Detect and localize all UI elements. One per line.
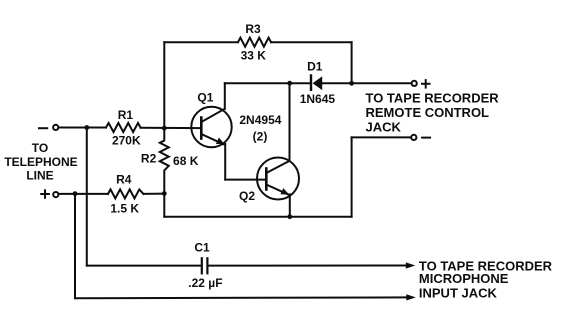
svg-text:INPUT JACK: INPUT JACK bbox=[419, 286, 498, 301]
svg-text:TO: TO bbox=[32, 141, 48, 155]
wire C1 left horizontal bbox=[87, 265, 202, 267]
capacitor C1 right plate bbox=[206, 258, 208, 273]
arrowhead bottom wire bbox=[406, 294, 416, 300]
wire node down to emitter rail bbox=[163, 194, 165, 217]
terminal plus jack bbox=[412, 81, 417, 86]
svg-text:1N645: 1N645 bbox=[300, 92, 336, 106]
Q1 emitter diagonal bbox=[201, 134, 223, 144]
svg-text:R2: R2 bbox=[141, 152, 157, 166]
svg-text:R3: R3 bbox=[245, 22, 261, 36]
Q1 base bar bbox=[200, 118, 203, 139]
wire top horizontal right of R3 bbox=[271, 41, 352, 43]
Q2 emitter diagonal bbox=[266, 185, 288, 195]
svg-text:270K: 270K bbox=[112, 134, 141, 148]
wire Q1 emitter to Q2 base bbox=[225, 179, 266, 181]
Q1 collector diagonal bbox=[201, 109, 225, 122]
Q2 collector vertical up bbox=[289, 83, 291, 161]
arrowhead mic wire bbox=[406, 262, 416, 268]
wire minus jack horizontal bbox=[352, 136, 412, 138]
resistor R3 bbox=[238, 38, 271, 47]
wire right vertical rail up to minus jack wire bbox=[351, 137, 353, 216]
wire collector rail to diode bbox=[225, 82, 310, 84]
Q2 base bar bbox=[265, 169, 268, 190]
terminal plus input bbox=[53, 192, 58, 197]
wire C1 right horizontal to mic arrow bbox=[208, 265, 407, 267]
minus sign input bbox=[39, 127, 47, 129]
terminal minus jack bbox=[411, 135, 416, 140]
wire top-right vertical bbox=[351, 42, 353, 83]
svg-text:JACK: JACK bbox=[366, 120, 402, 135]
wire emitter rail horizontal bbox=[164, 216, 351, 218]
svg-text:Q2: Q2 bbox=[239, 189, 255, 203]
svg-text:MICROPHONE: MICROPHONE bbox=[419, 271, 509, 286]
junction dot on minus wire bbox=[84, 125, 89, 130]
resistor R1 bbox=[106, 123, 141, 132]
Q1 emitter arrowhead bbox=[216, 138, 225, 145]
terminal minus input bbox=[53, 125, 58, 130]
Q2 collector diagonal bbox=[266, 161, 289, 173]
wire diode to plus jack terminal bbox=[322, 82, 411, 84]
svg-text:(2): (2) bbox=[253, 130, 268, 144]
svg-text:2N4954: 2N4954 bbox=[239, 113, 281, 127]
svg-text:C1: C1 bbox=[194, 241, 210, 255]
transistor Q2 bbox=[257, 158, 299, 200]
wire top horizontal left of R3 bbox=[164, 41, 238, 43]
svg-text:TELEPHONE: TELEPHONE bbox=[4, 155, 77, 169]
junction dot R2 bottom node bbox=[162, 191, 167, 196]
svg-text:.22 µF: .22 µF bbox=[188, 276, 222, 290]
wire R4 to node bbox=[144, 193, 165, 195]
svg-text:R4: R4 bbox=[116, 173, 132, 187]
svg-text:33 K: 33 K bbox=[241, 49, 267, 63]
junction dot plus wire bbox=[73, 191, 78, 196]
junction dot Q2 collector on rail bbox=[287, 81, 292, 86]
wire plus line to R4 bbox=[59, 193, 108, 195]
svg-text:Q1: Q1 bbox=[197, 91, 213, 105]
minus sign jack bbox=[422, 137, 430, 139]
junction dot R3 feedback on rail bbox=[349, 81, 354, 86]
svg-text:LINE: LINE bbox=[26, 169, 53, 183]
wire R1 to Q1 base bbox=[141, 127, 202, 129]
resistor R4 bbox=[108, 189, 144, 198]
wire minus line to R1 bbox=[59, 127, 107, 129]
transistor Q1 bbox=[191, 107, 231, 147]
svg-text:68 K: 68 K bbox=[173, 154, 199, 168]
junction dot base node bbox=[162, 126, 167, 131]
diode D1 triangle bbox=[313, 76, 323, 90]
svg-text:D1: D1 bbox=[307, 60, 323, 74]
Q2 emitter vertical down bbox=[289, 194, 291, 216]
svg-text:R1: R1 bbox=[118, 108, 134, 122]
wire bottom rail to input jack arrow bbox=[75, 296, 408, 299]
diode D1 cathode bar bbox=[310, 76, 312, 90]
svg-text:TO TAPE RECORDER: TO TAPE RECORDER bbox=[366, 91, 500, 106]
plus sign jack bbox=[422, 80, 430, 88]
wire minus node down to C1 bbox=[86, 128, 88, 266]
Q2 emitter arrowhead bbox=[281, 188, 290, 195]
svg-text:REMOTE CONTROL: REMOTE CONTROL bbox=[366, 105, 490, 120]
plus sign input bbox=[41, 190, 49, 198]
junction dot Q2 emitter on rail bbox=[287, 214, 292, 219]
svg-text:1.5 K: 1.5 K bbox=[110, 202, 139, 216]
wire top-left vertical bbox=[163, 42, 165, 128]
resistor R2 vertical bbox=[160, 128, 169, 193]
Q1 collector vertical bbox=[224, 83, 226, 109]
Q1 emitter vertical down bbox=[224, 144, 226, 180]
wire plus node down to bottom rail bbox=[74, 194, 76, 299]
capacitor C1 left plate bbox=[201, 258, 203, 273]
